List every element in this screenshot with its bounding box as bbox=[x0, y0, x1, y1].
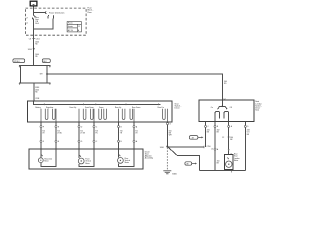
svg-text:C2: C2 bbox=[222, 137, 224, 139]
svg-text:699: 699 bbox=[40, 74, 43, 76]
svg-text:A/C 30: A/C 30 bbox=[68, 29, 73, 32]
svg-text:LT BU: LT BU bbox=[57, 133, 62, 135]
svg-text:Assembly: Assembly bbox=[145, 157, 153, 160]
svg-text:Seat: Seat bbox=[255, 109, 259, 112]
svg-text:Motor: Motor bbox=[44, 160, 49, 163]
svg-text:C1: C1 bbox=[26, 23, 28, 25]
svg-text:A6: A6 bbox=[187, 163, 189, 166]
svg-text:Rear: Rear bbox=[88, 11, 92, 14]
svg-text:Battery: Battery bbox=[35, 106, 41, 109]
svg-text:Rear Down: Rear Down bbox=[132, 106, 141, 109]
svg-text:Driver: Driver bbox=[175, 107, 180, 110]
svg-text:S306: S306 bbox=[160, 147, 164, 149]
svg-text:C250: C250 bbox=[207, 146, 211, 148]
svg-text:F: F bbox=[43, 141, 44, 143]
svg-text:On: On bbox=[211, 107, 213, 109]
svg-text:C208: C208 bbox=[35, 98, 39, 100]
svg-text:C2: C2 bbox=[223, 98, 225, 100]
svg-text:S244: S244 bbox=[28, 49, 32, 51]
svg-text:Front Down: Front Down bbox=[85, 106, 94, 109]
svg-text:Rear Dn: Rear Dn bbox=[158, 106, 164, 109]
svg-text:Fuses: Fuses bbox=[68, 23, 73, 25]
svg-text:Motor: Motor bbox=[125, 161, 130, 164]
svg-text:Front Up: Front Up bbox=[70, 106, 77, 109]
svg-text:C201: C201 bbox=[36, 38, 40, 40]
svg-text:C7: C7 bbox=[26, 17, 28, 19]
svg-text:15: 15 bbox=[78, 26, 80, 28]
svg-text:Rear Up: Rear Up bbox=[115, 106, 121, 109]
svg-text:Motor: Motor bbox=[85, 162, 90, 165]
svg-text:Heater: Heater bbox=[68, 25, 74, 28]
svg-text:C8: C8 bbox=[29, 38, 31, 40]
svg-text:F: F bbox=[43, 126, 44, 128]
svg-text:I/P BLK: I/P BLK bbox=[14, 61, 21, 63]
svg-text:Motor: Motor bbox=[234, 159, 239, 162]
svg-text:Down: Down bbox=[99, 107, 103, 109]
svg-text:A4: A4 bbox=[192, 137, 194, 140]
svg-text:G306: G306 bbox=[172, 173, 177, 175]
svg-text:LT GN: LT GN bbox=[80, 133, 86, 135]
svg-text:Regulator: Regulator bbox=[46, 106, 54, 109]
svg-text:Power Distribution: Power Distribution bbox=[49, 11, 64, 14]
